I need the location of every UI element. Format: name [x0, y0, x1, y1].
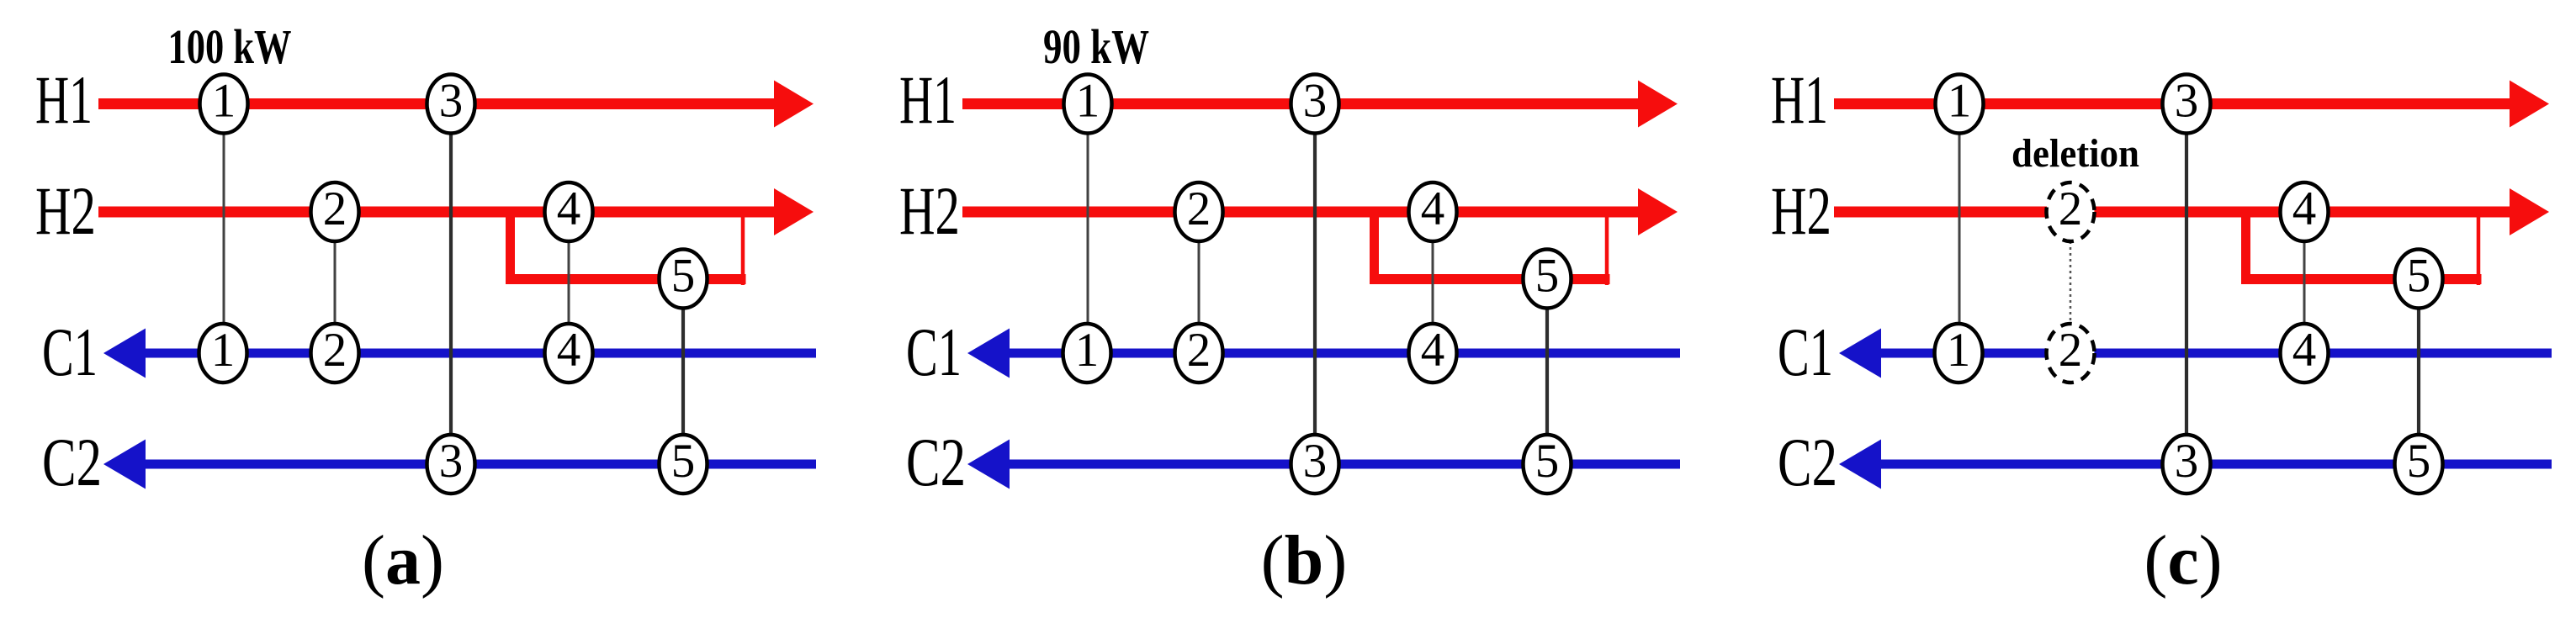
exchanger 1 on H1 (a) [200, 75, 248, 134]
C1 arrowhead (c) [1839, 329, 1881, 378]
svg-text:3: 3 [2175, 435, 2199, 488]
stream C2 cold line (c) [1877, 460, 2552, 469]
match line exchanger 5 (b) [1545, 279, 1549, 464]
match line exchanger 3 (b) [1313, 104, 1317, 465]
svg-text:1: 1 [1947, 324, 1971, 377]
svg-text:1: 1 [1075, 324, 1100, 377]
svg-text:4: 4 [557, 182, 581, 235]
match line exchanger 5 (a) [681, 279, 685, 464]
H2 bypass bottom branch (b) [1370, 274, 1610, 284]
svg-text:2: 2 [323, 182, 347, 235]
match line exchanger 1 (b) [1087, 104, 1089, 354]
H1 arrowhead (b) [1638, 81, 1678, 128]
exchanger 3 on C2 (c) [2163, 435, 2211, 494]
C2 arrowhead (b) [967, 440, 1010, 489]
H2 bypass bottom branch (a) [506, 274, 746, 284]
svg-text:4: 4 [2292, 182, 2317, 235]
svg-text:C2: C2 [906, 424, 966, 500]
match line exchanger 1 (c) [1959, 104, 1961, 354]
H2 arrowhead (b) [1638, 188, 1678, 235]
svg-text:4: 4 [2292, 324, 2317, 377]
H2 arrowhead (c) [2510, 188, 2549, 235]
svg-text:H1: H1 [1771, 61, 1828, 138]
svg-text:5: 5 [671, 435, 696, 488]
svg-text:H1: H1 [899, 61, 957, 138]
svg-text:4: 4 [1421, 324, 1445, 377]
svg-text:C2: C2 [1778, 424, 1837, 500]
match line exchanger 2 (c) [2070, 212, 2072, 353]
exchanger 4 on C1 (c) [2281, 324, 2329, 383]
exchanger 4 on C1 (b) [1409, 324, 1457, 383]
exchanger 1 on H1 (c) [1936, 75, 1984, 134]
match line exchanger 4 (c) [2303, 212, 2306, 353]
svg-text:H2: H2 [35, 172, 96, 249]
svg-text:3: 3 [1303, 75, 1328, 128]
svg-text:3: 3 [1303, 435, 1328, 488]
stream H1 hot line (c) [1834, 98, 2516, 109]
exchanger 5 on C2 (a) [660, 435, 708, 494]
svg-text:5: 5 [2407, 250, 2431, 303]
exchanger 3 on H1 (a) [427, 75, 475, 134]
svg-text:(b): (b) [1261, 521, 1348, 600]
exchanger 5 on bypass (b) [1524, 250, 1572, 309]
svg-text:(a): (a) [362, 521, 444, 600]
svg-text:4: 4 [1421, 182, 1445, 235]
exchanger 4 on C1 (a) [545, 324, 593, 383]
H2 bypass left leg (b) [1370, 212, 1379, 284]
H2 bypass left leg (c) [2241, 212, 2250, 284]
svg-text:2: 2 [1187, 324, 1211, 377]
C2 arrowhead (a) [103, 440, 146, 489]
svg-text:deletion: deletion [2012, 131, 2139, 176]
stream H2 hot line (b) [962, 207, 1645, 218]
svg-text:C1: C1 [906, 314, 962, 390]
match line exchanger 5 (c) [2417, 279, 2420, 464]
svg-text:(c): (c) [2144, 521, 2222, 600]
svg-text:1: 1 [211, 324, 236, 377]
exchanger 2 on H2 (b) [1175, 182, 1223, 241]
svg-text:5: 5 [671, 250, 696, 303]
exchanger 2 on C1 (b) [1175, 324, 1223, 383]
stream H1 hot line (b) [962, 98, 1645, 109]
H2 bypass bottom branch (c) [2241, 274, 2482, 284]
svg-text:H2: H2 [1771, 172, 1831, 249]
svg-text:H1: H1 [35, 61, 93, 138]
exchanger 1 on C1 (c) [1935, 324, 1983, 383]
H1 arrowhead (a) [774, 81, 814, 128]
C1 arrowhead (a) [103, 329, 146, 378]
svg-text:5: 5 [1535, 435, 1560, 488]
exchanger 5 on C2 (b) [1524, 435, 1572, 494]
svg-text:3: 3 [2175, 75, 2199, 128]
H2 arrowhead (a) [774, 188, 814, 235]
svg-text:2: 2 [323, 324, 347, 377]
svg-text:1: 1 [1076, 75, 1100, 128]
stream C1 cold line (c) [1877, 349, 2552, 358]
stream C2 cold line (a) [141, 460, 816, 469]
stream C1 cold line (b) [1005, 349, 1680, 358]
H2 bypass right leg (a) [741, 212, 745, 285]
exchanger 3 on C2 (b) [1291, 435, 1339, 494]
svg-text:90 kW: 90 kW [1043, 19, 1149, 74]
exchanger 1 on C1 (a) [199, 324, 247, 383]
match line exchanger 3 (c) [2185, 104, 2188, 465]
match line exchanger 4 (b) [1432, 212, 1434, 353]
exchanger 4 on H2 (c) [2281, 182, 2329, 241]
exchanger 2 on C1 (a) [311, 324, 359, 383]
svg-text:5: 5 [1535, 250, 1560, 303]
svg-text:100 kW: 100 kW [168, 19, 292, 74]
exchanger 1 on C1 (b) [1063, 324, 1111, 383]
svg-text:2: 2 [2059, 182, 2083, 235]
H2 bypass left leg (a) [506, 212, 515, 284]
H2 bypass right leg (c) [2477, 212, 2481, 285]
C2 arrowhead (c) [1839, 440, 1881, 489]
C1 arrowhead (b) [967, 329, 1010, 378]
H1 arrowhead (c) [2510, 81, 2549, 128]
stream H2 hot line (c) [1834, 207, 2516, 218]
stream C1 cold line (a) [141, 349, 816, 358]
svg-text:C2: C2 [42, 424, 102, 500]
match line exchanger 2 (a) [334, 212, 337, 353]
svg-text:3: 3 [439, 435, 464, 488]
svg-text:5: 5 [2407, 435, 2431, 488]
svg-text:1: 1 [1948, 75, 1972, 128]
match line exchanger 4 (a) [568, 212, 570, 353]
stream H2 hot line (a) [98, 207, 781, 218]
match line exchanger 1 (a) [223, 104, 225, 354]
exchanger 3 on C2 (a) [427, 435, 475, 494]
svg-text:2: 2 [1187, 182, 1211, 235]
exchanger 4 on H2 (a) [545, 182, 593, 241]
H2 bypass right leg (b) [1605, 212, 1609, 285]
svg-text:3: 3 [439, 75, 464, 128]
svg-text:4: 4 [557, 324, 581, 377]
exchanger 1 on H1 (b) [1064, 75, 1112, 134]
svg-text:H2: H2 [899, 172, 960, 249]
exchanger 5 on bypass (c) [2395, 250, 2443, 309]
svg-text:C1: C1 [1778, 314, 1833, 390]
exchanger 3 on H1 (c) [2163, 75, 2211, 134]
stream C2 cold line (b) [1005, 460, 1680, 469]
exchanger 5 on C2 (c) [2395, 435, 2443, 494]
exchanger 4 on H2 (b) [1409, 182, 1457, 241]
exchanger 2 on H2 (c) [2047, 182, 2095, 241]
exchanger 5 on bypass (a) [660, 250, 708, 309]
svg-text:1: 1 [212, 75, 236, 128]
match line exchanger 2 (b) [1198, 212, 1201, 353]
exchanger 2 on H2 (a) [311, 182, 359, 241]
svg-text:C1: C1 [42, 314, 98, 390]
svg-text:2: 2 [2059, 324, 2083, 377]
exchanger 3 on H1 (b) [1291, 75, 1339, 134]
exchanger 2 on C1 (c) [2047, 324, 2095, 383]
stream H1 hot line (a) [98, 98, 781, 109]
match line exchanger 3 (a) [449, 104, 453, 465]
